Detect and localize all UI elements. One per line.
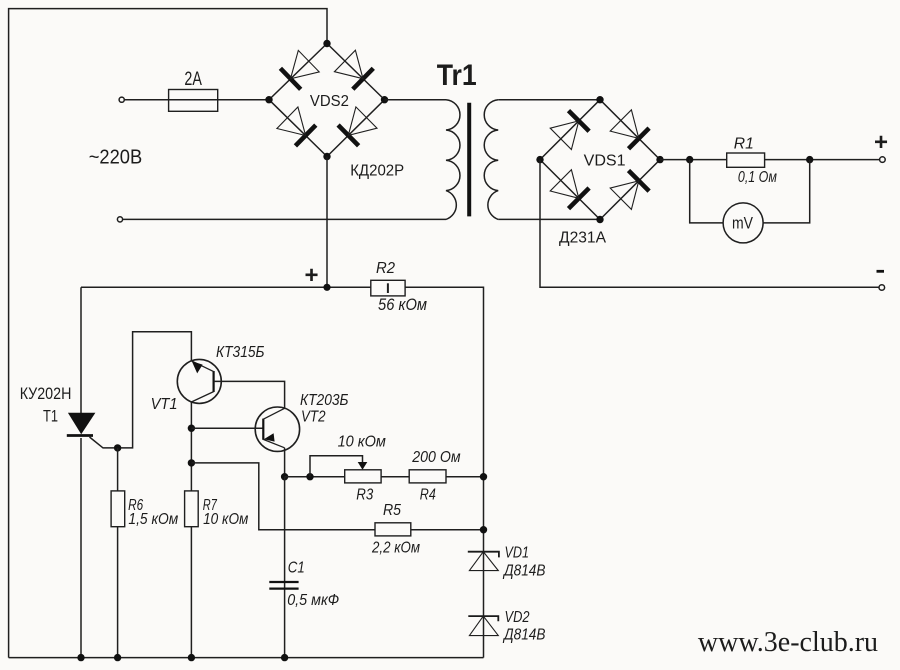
resistor R5 <box>375 523 411 536</box>
diode VDS2 bottom-right <box>338 107 377 146</box>
plus output terminal <box>880 157 886 163</box>
wire secondary top to VDS1 top <box>498 99 600 101</box>
diode VDS1 bottom-right <box>610 171 649 210</box>
label minus output <box>877 270 885 273</box>
zener diode VD2 <box>468 616 498 636</box>
node VDS2 left <box>265 96 272 103</box>
svg-text:Д814В: Д814В <box>502 563 545 580</box>
svg-text:1,5 кОм: 1,5 кОм <box>128 511 178 528</box>
meter mV <box>723 203 763 243</box>
svg-text:VT2: VT2 <box>301 409 326 426</box>
svg-text:mV: mV <box>732 213 754 232</box>
node VT2 base junction <box>188 425 195 432</box>
wire left branch down to thyristor <box>80 287 82 413</box>
svg-text:КД202Р: КД202Р <box>350 163 404 180</box>
diode VDS1 top-left <box>550 111 589 150</box>
wire VT2 base <box>191 427 263 429</box>
node VT2 emitter junction <box>281 473 288 480</box>
svg-text:VDS1: VDS1 <box>584 153 626 170</box>
wire R3 to R4 <box>381 476 409 478</box>
wire R6 bottom <box>117 527 119 658</box>
node mV right junction <box>806 156 813 163</box>
node bottom rail R6 <box>114 654 121 661</box>
node VDS2 bottom <box>323 153 330 160</box>
svg-text:2,2 кОм: 2,2 кОм <box>371 540 420 557</box>
wire top frame <box>9 9 327 658</box>
wire R2 rail <box>81 286 371 288</box>
node gate R6 junction <box>114 444 121 451</box>
svg-text:56 кОм: 56 кОм <box>378 296 427 314</box>
svg-text:VD2: VD2 <box>505 609 530 626</box>
wire bottom rail <box>9 657 484 659</box>
node VDS1 top <box>596 96 603 103</box>
node VDS1 bottom <box>596 216 603 223</box>
diode VDS2 top-right <box>334 50 373 89</box>
resistor R4 <box>409 470 446 483</box>
minus output terminal <box>879 285 885 291</box>
diode VDS1 top-right <box>610 110 649 149</box>
capacitor C1 <box>269 477 298 658</box>
svg-text:КУ202Н: КУ202Н <box>20 384 72 403</box>
node VDS1 right <box>656 156 663 163</box>
thyristor T1 КУ202Н <box>67 413 96 436</box>
resistor R7 <box>185 491 199 527</box>
svg-text:R5: R5 <box>383 502 401 519</box>
svg-text:+: + <box>874 129 888 156</box>
wire VDS2 bottom to plus node <box>326 157 328 288</box>
diode VDS1 bottom-left <box>550 170 589 209</box>
zener diode VD1 <box>468 552 499 571</box>
svg-text:КТ315Б: КТ315Б <box>216 344 265 361</box>
diode VDS2 top-left <box>280 50 319 89</box>
wire R5 branch <box>191 463 375 530</box>
svg-text:VDS2: VDS2 <box>310 93 349 110</box>
wire secondary bottom to VDS1 bottom <box>498 218 600 220</box>
svg-text:+: + <box>304 262 318 289</box>
arrow R3 wiper <box>358 462 368 470</box>
wire mV branch <box>690 160 723 223</box>
resistor R6 <box>111 491 125 527</box>
node VDS2 top <box>323 40 330 47</box>
svg-text:Д814В: Д814В <box>502 627 545 644</box>
node bottom rail R7 <box>188 654 195 661</box>
svg-text:R2: R2 <box>376 260 395 277</box>
input terminal 2 <box>117 217 122 222</box>
wire emitter row to R3 <box>285 476 345 478</box>
node plus junction <box>323 284 330 291</box>
node R4 right junction <box>480 473 487 480</box>
svg-text:10 кОм: 10 кОм <box>203 511 248 528</box>
wire R5 to right vertical <box>411 529 484 531</box>
node wiper junction <box>306 473 313 480</box>
input terminal 1 <box>119 97 124 102</box>
svg-text:0,5 мкФ: 0,5 мкФ <box>287 592 339 609</box>
svg-text:10 кОм: 10 кОм <box>338 434 386 451</box>
svg-text:0,1 Ом: 0,1 Ом <box>738 169 777 186</box>
svg-text:www.3e-club.ru: www.3e-club.ru <box>698 627 878 658</box>
wire thyristor cathode down <box>80 438 82 658</box>
wire mV branch right <box>763 160 810 223</box>
wire terminal1 to fuse <box>125 99 169 101</box>
svg-text:T1: T1 <box>43 407 58 426</box>
wire R2 to right vertical <box>405 287 483 657</box>
node R5 branch junction <box>188 459 195 466</box>
diode VDS2 bottom-left <box>277 107 316 146</box>
node VDS1 left <box>536 156 543 163</box>
resistor R3 potentiometer <box>345 470 381 483</box>
wire VT1 base to VT2 collector <box>214 381 285 408</box>
transformer Tr1 primary winding <box>446 100 460 220</box>
wire thyristor gate <box>90 332 192 448</box>
transistor VT2 КТ203Б <box>255 407 299 451</box>
resistor R2 <box>371 280 405 296</box>
node R5 right junction <box>480 526 487 533</box>
node VDS2 right <box>381 96 388 103</box>
transistor VT1 КТ315Б <box>177 359 221 403</box>
node bottom rail thyristor <box>77 654 84 661</box>
wire R1 to plus terminal <box>765 159 880 161</box>
transformer Tr1 core <box>467 103 471 217</box>
transformer Tr1 secondary winding <box>484 100 498 220</box>
wire terminal2 to transformer primary bottom <box>123 218 446 220</box>
svg-text:VD1: VD1 <box>505 545 530 562</box>
wire R4 to right vertical <box>446 476 484 478</box>
wire VT1 collector down to R7 <box>190 402 192 491</box>
bridge VDS2 frame <box>269 44 385 157</box>
svg-text:R1: R1 <box>734 136 754 153</box>
wire R6 top <box>117 448 119 491</box>
fuse FU 2A <box>169 90 218 112</box>
node mV left junction <box>686 156 693 163</box>
svg-text:КТ203Б: КТ203Б <box>300 392 349 409</box>
svg-text:~220В: ~220В <box>89 145 143 168</box>
wire VDS1 right to R1 <box>660 159 727 161</box>
wire VDS1 left down to minus rail <box>540 160 879 288</box>
wire R3 wiper <box>310 456 363 477</box>
svg-text:200 Ом: 200 Ом <box>411 449 460 466</box>
svg-text:Д231А: Д231А <box>559 230 606 247</box>
svg-text:VT1: VT1 <box>151 396 178 413</box>
svg-text:Tr1: Tr1 <box>437 59 477 92</box>
svg-text:R4: R4 <box>420 487 436 504</box>
wire VT2 emitter down <box>284 448 286 477</box>
svg-text:2A: 2A <box>184 69 202 90</box>
wire R7 bottom <box>190 527 192 658</box>
wire VDS2 right to transformer primary top <box>385 99 447 101</box>
bridge VDS1 frame <box>540 100 660 220</box>
node bottom rail C1 <box>281 654 288 661</box>
resistor R1 <box>727 153 765 167</box>
svg-text:R3: R3 <box>356 487 373 504</box>
svg-text:C1: C1 <box>288 560 305 577</box>
wire fuse to bridge <box>218 99 269 101</box>
